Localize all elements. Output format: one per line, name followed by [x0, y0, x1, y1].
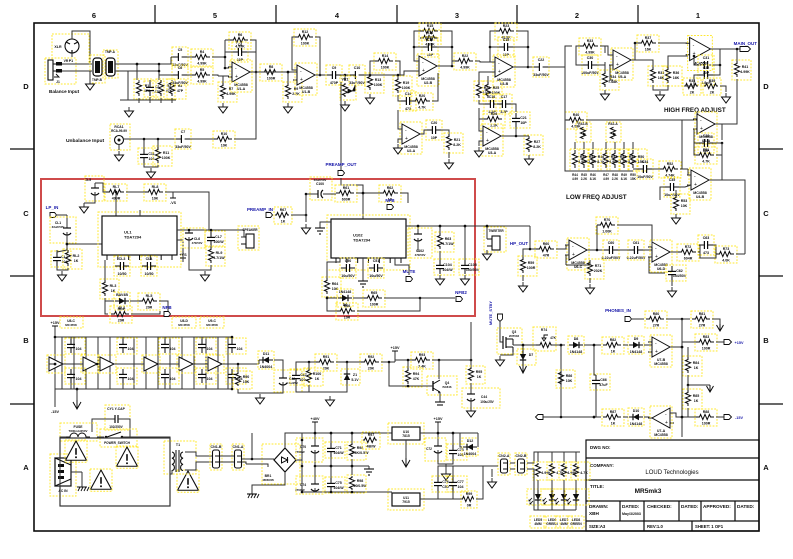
svg-text:CL3: CL3 [119, 257, 126, 261]
svg-text:1N4148: 1N4148 [339, 290, 352, 294]
svg-text:470/50V: 470/50V [192, 241, 203, 245]
svg-text:D9: D9 [634, 337, 639, 341]
svg-text:47R: 47R [543, 254, 550, 258]
border tick [396, 5, 398, 23]
wire [238, 389, 283, 393]
ground [467, 407, 476, 417]
capacitor C30 [581, 55, 599, 75]
junction [301, 465, 304, 468]
net label NFB2a [385, 198, 395, 203]
svg-text:4.99K: 4.99K [460, 66, 470, 70]
op-amp U1-B [293, 63, 319, 95]
border tick [759, 403, 783, 405]
svg-text:R34: R34 [610, 75, 617, 79]
junction [596, 249, 599, 252]
wire [713, 142, 722, 144]
wire [597, 62, 605, 65]
junction [486, 225, 489, 228]
svg-text:1: 1 [696, 11, 700, 20]
power +40V [311, 417, 320, 426]
junction [351, 432, 354, 435]
wire [587, 225, 597, 250]
ferrite bead TP1-A [103, 50, 118, 78]
wire [251, 433, 253, 459]
svg-text:R86: R86 [566, 374, 573, 378]
wire [63, 363, 83, 365]
border tick [759, 148, 783, 150]
svg-text:U3-A: U3-A [488, 151, 497, 155]
ground [461, 275, 470, 285]
diode D7 [517, 349, 536, 365]
wire [736, 79, 738, 120]
LED LED6 [541, 489, 565, 505]
svg-text:1N4148: 1N4148 [630, 422, 643, 426]
junction [255, 71, 258, 74]
wire [357, 298, 420, 311]
capacitor C73 [447, 444, 467, 460]
wire [679, 185, 691, 187]
LED label LED5 [530, 516, 546, 528]
wire [687, 385, 689, 390]
arrow ground [73, 400, 81, 409]
svg-text:C14: C14 [405, 92, 412, 96]
svg-text:100uF/50V: 100uF/50V [581, 71, 599, 75]
svg-text:VR1: VR1 [342, 78, 349, 82]
svg-text:R99: R99 [466, 492, 473, 496]
resistor R2 [156, 79, 175, 99]
svg-text:1K: 1K [611, 422, 616, 426]
MOSFET Q3 [497, 328, 522, 354]
wire [460, 433, 462, 447]
wire [308, 362, 310, 369]
junction [158, 63, 161, 66]
wire [159, 301, 168, 311]
capacitor C32 [698, 65, 714, 85]
wire [398, 139, 402, 143]
svg-text:R64: R64 [332, 282, 339, 286]
svg-text:R21: R21 [454, 138, 461, 142]
svg-text:C50: C50 [345, 259, 352, 263]
svg-text:D11: D11 [263, 352, 269, 356]
svg-text:TDA7294: TDA7294 [353, 238, 371, 243]
svg-text:CN1-B: CN1-B [211, 445, 222, 449]
buffer U8-A [47, 355, 65, 373]
svg-text:CN2-B: CN2-B [516, 454, 527, 458]
wire [296, 362, 316, 370]
wire [400, 71, 419, 75]
wire [552, 344, 565, 346]
svg-text:TDA7294: TDA7294 [124, 235, 142, 240]
svg-text:1N4004: 1N4004 [464, 452, 477, 456]
svg-text:BAV4B: BAV4B [116, 293, 128, 297]
svg-text:0.22uF/50V: 0.22uF/50V [602, 256, 621, 260]
wire [346, 362, 348, 370]
wire [84, 200, 95, 203]
junction [305, 193, 308, 196]
junction [314, 432, 317, 435]
wire [225, 39, 230, 41]
svg-text:473: 473 [703, 251, 709, 255]
svg-text:104/W: 104/W [442, 268, 453, 272]
wire [217, 337, 219, 389]
wire [437, 73, 439, 90]
wire [327, 258, 340, 278]
resistor R26 [483, 111, 505, 128]
junction [351, 465, 354, 468]
svg-text:4.99K: 4.99K [197, 80, 207, 84]
arrow ground [402, 458, 410, 467]
wire [516, 135, 529, 137]
wire [252, 71, 261, 73]
capacitor C75 [325, 477, 345, 493]
wire [420, 432, 478, 434]
svg-text:C35: C35 [669, 178, 676, 182]
LED LED7 [553, 489, 577, 505]
svg-text:LOUD Technologies: LOUD Technologies [645, 470, 698, 476]
resistor R98 [347, 475, 367, 493]
capacitor C60 [602, 240, 621, 260]
junction [527, 46, 530, 49]
junction [330, 491, 333, 494]
warning triangle W2 [116, 446, 138, 468]
wire [405, 440, 407, 458]
resistor R10 [213, 131, 235, 148]
net label MUTE [403, 269, 416, 274]
svg-text:4700uF: 4700uF [295, 450, 305, 454]
power -VS stub [172, 192, 174, 198]
resistor RL7 [105, 184, 127, 201]
svg-text:33uF/50V: 33uF/50V [314, 178, 327, 182]
net label LP_IN [46, 205, 59, 210]
net label PREAMP_OUT [325, 162, 356, 167]
svg-text:4MM: 4MM [560, 522, 568, 526]
junction [489, 46, 492, 49]
svg-text:C62: C62 [676, 269, 683, 273]
svg-text:R74: R74 [541, 328, 547, 332]
resistor R22 [454, 53, 476, 70]
svg-text:10/50: 10/50 [145, 272, 154, 276]
junction [330, 465, 333, 468]
junction [439, 225, 442, 228]
wire [408, 385, 433, 387]
zener Z1 [341, 369, 360, 385]
resistor R33 [579, 38, 601, 55]
buffer U8-B [81, 355, 99, 373]
wire [353, 297, 364, 299]
svg-text:+: + [665, 420, 668, 426]
wire [169, 337, 171, 389]
resistor R96 [347, 442, 369, 460]
ground [86, 80, 95, 90]
wire [222, 363, 259, 365]
wire [222, 76, 224, 83]
svg-text:C22: C22 [538, 58, 545, 62]
wire [224, 40, 226, 68]
wire [694, 56, 699, 65]
speaker connector [238, 226, 259, 250]
svg-text:CL7: CL7 [215, 235, 222, 239]
wire [510, 462, 515, 464]
capacitor C202 [196, 338, 216, 354]
svg-text:1K: 1K [315, 377, 320, 381]
wire [138, 80, 140, 82]
svg-text:R13: R13 [375, 78, 382, 82]
op-amp U3-A [479, 124, 505, 156]
chassis ground [71, 472, 89, 491]
capacitor C9 [326, 65, 342, 85]
svg-text:R10: R10 [221, 132, 228, 136]
wire [164, 383, 166, 389]
resistor R63 [435, 232, 454, 252]
wire [115, 192, 117, 216]
svg-text:R16: R16 [427, 31, 434, 35]
svg-text:R19: R19 [403, 81, 410, 85]
svg-text:C31: C31 [703, 56, 710, 60]
svg-text:PREAMP_IN: PREAMP_IN [247, 207, 273, 212]
wire [157, 337, 159, 389]
wire [60, 437, 66, 445]
wire [445, 464, 447, 470]
diode D9 [628, 336, 644, 354]
wire [242, 462, 246, 464]
svg-text:TMP-A: TMP-A [105, 50, 116, 54]
wire [586, 119, 697, 121]
resistor R67 [274, 207, 292, 224]
resistor R13 [365, 73, 384, 93]
wire [537, 504, 539, 510]
svg-text:R59: R59 [528, 261, 535, 265]
wire [301, 466, 303, 492]
svg-text:RL9: RL9 [216, 251, 223, 255]
wire [566, 245, 569, 249]
svg-text:+: + [700, 126, 703, 132]
junction [136, 63, 139, 66]
svg-text:C100: C100 [316, 182, 324, 186]
svg-text:102: 102 [149, 157, 155, 161]
arrow ground [707, 385, 714, 392]
svg-text:104: 104 [207, 347, 213, 351]
junction [319, 74, 322, 77]
resistor RL3 [100, 279, 119, 299]
svg-text:47P: 47P [177, 89, 184, 93]
svg-text:R23: R23 [503, 24, 510, 28]
svg-text:R88: R88 [703, 410, 710, 414]
wire [121, 419, 130, 437]
junction [224, 56, 227, 59]
resistor R87 [571, 462, 590, 480]
junction [419, 297, 422, 300]
wire [225, 51, 233, 53]
svg-text:+: + [655, 254, 658, 260]
wire [285, 433, 302, 448]
wire [652, 168, 660, 170]
svg-text:104: 104 [207, 377, 213, 381]
wire [551, 504, 553, 510]
svg-text:1K: 1K [477, 375, 482, 379]
svg-text:R63: R63 [445, 237, 452, 241]
wire [237, 364, 239, 372]
svg-text:2: 2 [575, 11, 579, 20]
svg-text:33uF/50V: 33uF/50V [52, 225, 65, 229]
junction [515, 135, 518, 138]
svg-text:R90: R90 [243, 375, 250, 379]
junction [231, 388, 234, 391]
wire [380, 61, 400, 75]
svg-text:U6-A: U6-A [702, 139, 711, 143]
resistor R39 [703, 78, 721, 95]
svg-text:0R: 0R [467, 504, 472, 508]
wire [438, 498, 462, 500]
svg-text:33uF/50V: 33uF/50V [533, 73, 549, 77]
wire [302, 432, 392, 434]
wire [479, 108, 484, 119]
wire [614, 142, 616, 149]
signal ground [364, 466, 374, 475]
resistor R95 [466, 366, 485, 384]
junction [158, 70, 161, 73]
svg-text:7815: 7815 [402, 434, 410, 438]
wire [500, 352, 513, 355]
svg-text:R5: R5 [200, 68, 205, 72]
wire [301, 433, 303, 440]
wire [537, 452, 539, 462]
svg-text:J1: J1 [56, 80, 60, 84]
capacitor C165 [159, 338, 179, 354]
svg-text:470/50V: 470/50V [415, 253, 426, 257]
wire [330, 457, 332, 466]
svg-text:R25: R25 [493, 86, 500, 90]
svg-text:May/3/2003: May/3/2003 [622, 512, 641, 516]
pot R74 [533, 327, 557, 351]
capacitor C62 [666, 265, 687, 281]
resistor R1 [134, 79, 153, 99]
wire [527, 452, 580, 463]
svg-text:C44: C44 [481, 395, 487, 399]
resistor R91 [315, 354, 337, 371]
svg-text:104: 104 [128, 377, 134, 381]
buffer U9-A [142, 355, 160, 373]
wire [201, 337, 203, 339]
connector CN2-B [515, 453, 527, 475]
wire [189, 246, 211, 270]
svg-text:2.2K: 2.2K [612, 177, 619, 181]
capacitor C21 [510, 112, 530, 128]
resistor R70 [596, 217, 618, 234]
wire [551, 452, 553, 462]
wire [660, 187, 665, 200]
wire [143, 139, 145, 149]
svg-text:C: C [23, 209, 29, 218]
ground [519, 282, 528, 292]
wire [668, 56, 688, 67]
svg-text:20R: 20R [146, 306, 153, 310]
wire [643, 247, 652, 250]
connector CN1-B [210, 444, 222, 470]
junction [351, 432, 354, 435]
resistor R85 [547, 462, 566, 480]
junction [231, 336, 234, 339]
wire [501, 127, 516, 136]
capacitor C5 [172, 47, 188, 67]
power +15Vb [51, 321, 60, 330]
svg-text:R62: R62 [387, 186, 394, 190]
svg-text:C5: C5 [178, 48, 183, 52]
svg-text:+: + [616, 62, 619, 68]
resistor R84 [533, 462, 552, 480]
svg-text:GREEN: GREEN [546, 522, 558, 526]
svg-text:R27: R27 [534, 140, 541, 144]
ground [80, 203, 89, 213]
svg-text:104: 104 [128, 347, 134, 351]
capacitor C7 [175, 129, 191, 149]
svg-text:LP_IN: LP_IN [46, 205, 59, 210]
transformer T1 [164, 441, 196, 474]
wire [281, 70, 297, 72]
wire [560, 345, 562, 417]
wire [133, 337, 135, 389]
wire [384, 297, 455, 299]
junction [593, 416, 596, 419]
wire [139, 210, 141, 216]
svg-text:RL5: RL5 [146, 294, 153, 298]
wire [617, 225, 652, 247]
capacitor C123 [117, 338, 137, 354]
svg-text:104: 104 [170, 347, 176, 351]
wire [340, 82, 342, 170]
junction [721, 142, 724, 145]
wire [670, 413, 682, 417]
svg-text:10u/50V: 10u/50V [341, 274, 355, 278]
wire [205, 337, 207, 389]
capacitor CL6 [183, 228, 205, 248]
wire [181, 337, 183, 389]
junction [346, 361, 349, 364]
resistor R88 [695, 409, 717, 426]
resistor R36 [663, 66, 682, 86]
svg-text:604R: 604R [684, 257, 693, 261]
resistor R14 [374, 53, 396, 70]
net label NFB2 [455, 290, 467, 295]
resistor R7 [218, 82, 237, 102]
svg-text:2.2K: 2.2K [581, 177, 588, 181]
capacitor C71 [65, 338, 85, 354]
svg-text:4.7/1W: 4.7/1W [442, 242, 454, 246]
svg-text:U3-B: U3-B [500, 82, 509, 86]
wire [420, 491, 438, 499]
resistor R20 [411, 93, 433, 110]
svg-text:4700uF: 4700uF [295, 488, 305, 492]
junction [301, 439, 304, 442]
RCA connector RCA1 [110, 124, 130, 150]
IC UL1 TDA7294 [98, 212, 181, 267]
wire [128, 79, 176, 100]
svg-text:16K: 16K [658, 76, 665, 80]
wire [315, 74, 327, 76]
svg-text:100K: 100K [162, 156, 171, 160]
svg-text:C10: C10 [354, 66, 361, 70]
signal ground [439, 399, 441, 402]
svg-text:C32: C32 [703, 66, 710, 70]
wire [330, 491, 332, 493]
ground [219, 103, 228, 113]
op-amp U1-A [228, 60, 254, 92]
svg-text:-15V: -15V [51, 410, 59, 414]
wire [160, 98, 162, 103]
svg-text:C104: C104 [443, 263, 452, 267]
svg-text:C50: C50 [442, 485, 449, 489]
wire [479, 100, 485, 104]
wire [330, 466, 332, 478]
